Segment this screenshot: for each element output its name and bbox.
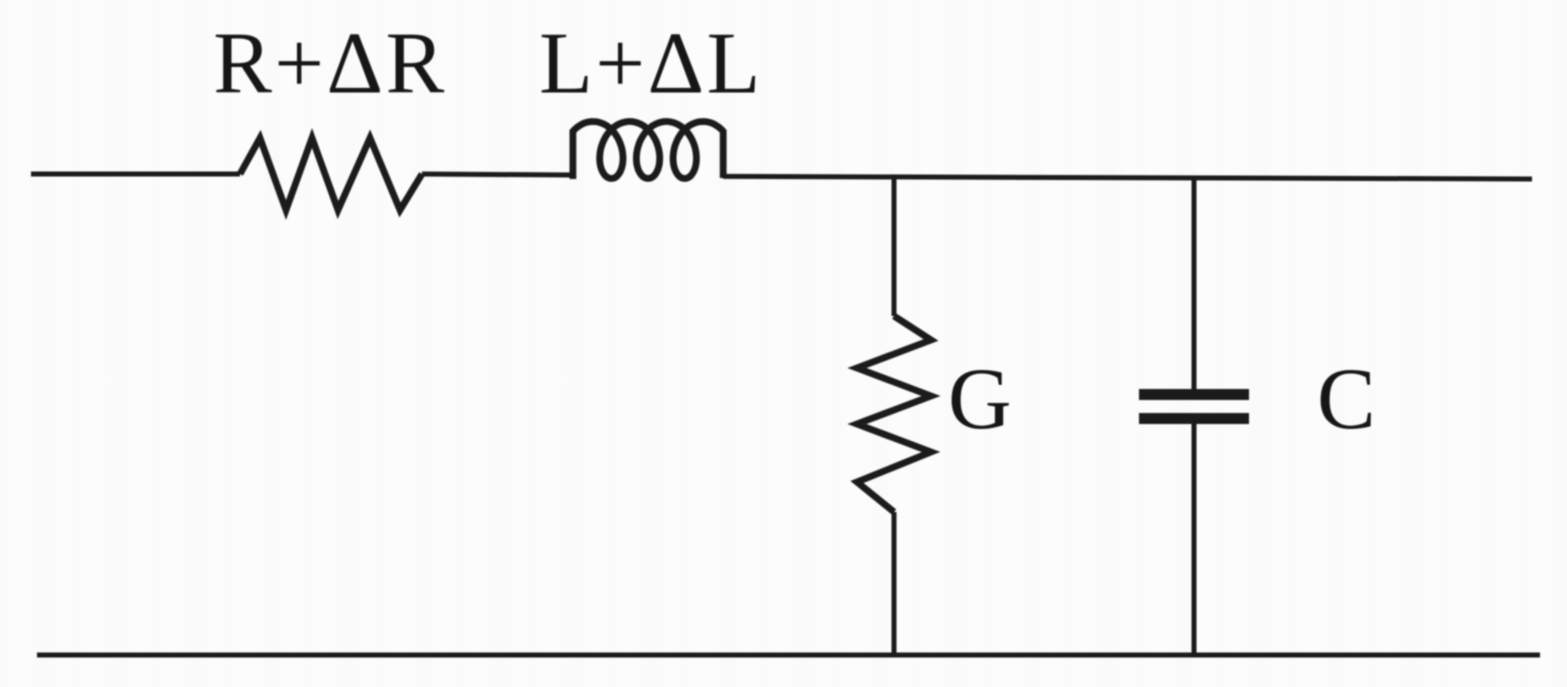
svg-text:C: C <box>1317 351 1376 448</box>
wire bottom rail <box>37 653 1540 658</box>
wire resistor-to-inductor <box>422 174 573 175</box>
capacitor C <box>1139 389 1249 424</box>
resistor G <box>857 316 931 512</box>
wire G-branch lower <box>892 512 897 655</box>
svg-text:L+ΔL: L+ΔL <box>539 16 763 113</box>
svg-text:G: G <box>948 351 1012 448</box>
resistor R+&#916;R <box>240 138 422 210</box>
wire G-branch upper <box>892 177 897 316</box>
wire top-left <box>31 172 240 177</box>
wire C-branch upper <box>1192 178 1197 389</box>
wire top-right <box>723 176 1532 179</box>
inductor L+&#916;L <box>573 122 723 180</box>
svg-text:R+ΔR: R+ΔR <box>213 16 447 113</box>
wire C-branch lower <box>1192 424 1197 655</box>
